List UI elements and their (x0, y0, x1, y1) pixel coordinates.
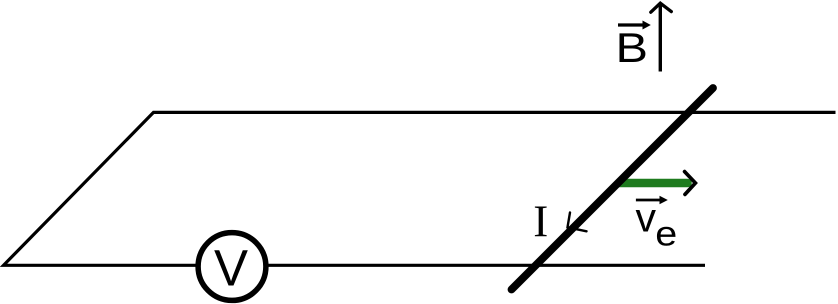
svg-text:V: V (214, 240, 248, 297)
voltmeter V1 circle (198, 233, 266, 301)
magnetic field arrow shaft (vertical) (659, 5, 662, 72)
top rail + left rail + bottom rail (wire) (4, 112, 836, 265)
green velocity arrow shaft (619, 179, 688, 188)
svg-text:e: e (655, 213, 677, 252)
magnetic field arrowhead (651, 3, 672, 12)
velocity vector arrow over v (636, 199, 661, 202)
svg-text:v: v (636, 195, 657, 241)
rod (moving conductor) (512, 88, 714, 290)
svg-text:B: B (616, 24, 648, 71)
green velocity arrowhead (685, 172, 696, 195)
B vector arrow over B (618, 23, 644, 26)
current direction arrowhead on rod (568, 213, 587, 232)
svg-text:I: I (533, 196, 548, 246)
